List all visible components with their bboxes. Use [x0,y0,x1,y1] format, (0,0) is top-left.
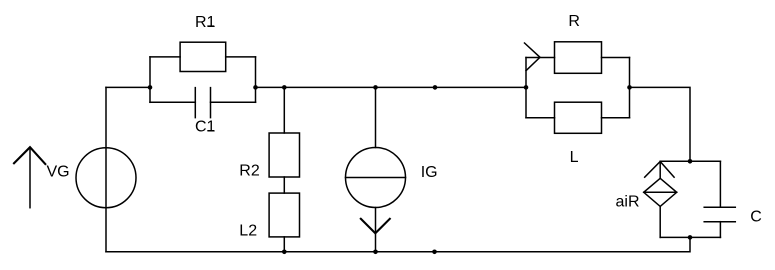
resistor R [555,42,602,74]
junction dot right column top [688,159,693,164]
wire: R top branch right [602,57,630,59]
wire: IG branch stub from rail [375,87,377,147]
svg-text:aiR: aiR [616,194,640,211]
node B right junction of R1/C1 vertical [255,57,257,102]
resistor R1 [180,42,226,71]
junction node D dot [627,85,632,90]
node A left junction of R1/C1 vertical [149,57,151,102]
arrow of IG pointing down [361,219,390,234]
wire: aiR/C bottom connecting wire [660,236,720,238]
wire: R2 to L2 [283,177,285,193]
wire: C branch bottom stub [719,222,721,238]
arrow of VG shaft [29,147,31,207]
resistor R2 [269,133,299,177]
wire: aiR/C top connecting wire [660,160,720,162]
junction node B dot [253,85,258,90]
svg-text:L: L [570,149,579,166]
junction node C dot [524,85,529,90]
svg-text:IG: IG [421,164,438,181]
junction node A dot [148,85,153,90]
wire: node D to right column [630,87,691,161]
current source IG [346,148,406,208]
wire: main top rail [256,86,527,88]
wire: L2 to bottom rail [283,237,285,252]
wire: R1 top branch left [150,56,180,58]
wire: R2 branch stub from rail [283,87,285,133]
svg-text:L2: L2 [239,223,257,240]
svg-text:VG: VG [47,164,70,181]
node D right junction of R/L vertical [629,58,631,118]
current source IG diameter line [346,177,406,179]
junction dot right column bottom [688,235,693,240]
controlled source aiR stem top [659,161,661,178]
svg-text:C: C [750,209,762,226]
capacitor C1 [195,88,210,118]
arrow of VG head pointing up [14,147,45,164]
wire: VG branch vertical (top rail to bottom rail through source) [105,87,107,251]
wire: top left rail VG to node A [106,86,150,88]
controlled source aiR diamond mid line [644,191,677,193]
voltage source VG [76,148,136,208]
svg-text:C1: C1 [195,118,216,135]
junction dot bottom rail mid [432,250,437,255]
junction dot IG branch top [373,85,378,90]
wire: C1 bottom branch right [211,101,256,103]
svg-text:R2: R2 [239,163,260,180]
svg-text:R: R [568,13,580,30]
wire: L bottom branch left [526,117,555,119]
wire: R1 top branch right [226,56,256,58]
wire: IG to bottom rail [375,208,377,252]
junction dot IG bottom [373,250,378,255]
arrow head of controlled source aiR [645,162,674,178]
label R1 foot bar of 1 [207,25,214,27]
wire: C1 bottom branch left [150,101,195,103]
wire: C branch top stub [719,161,721,207]
controlled source aiR stem bottom [659,206,661,237]
wire: bottom rail [106,237,690,251]
current sense arrow on R branch [525,43,541,71]
junction dot R2 branch top [282,85,287,90]
svg-text:R1: R1 [195,14,216,31]
controlled source aiR diamond [644,178,677,206]
inductor L [555,102,602,133]
inductor L2 [269,193,299,237]
wire: L bottom branch right [602,117,630,119]
junction dot L2 bottom [282,250,287,255]
label C1 foot bar of 1 [207,130,214,132]
junction dot mid rail [433,85,438,90]
wire: R top branch left [526,57,555,59]
capacitor C plates [704,207,735,222]
node C left junction of R/L vertical [525,58,527,118]
